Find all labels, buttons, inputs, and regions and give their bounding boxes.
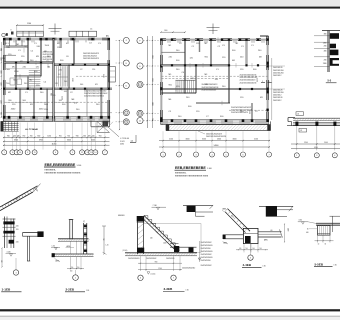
svg-text:20423412602: 20423412602 [146, 258, 156, 260]
plan A window frame ticks top wall [13, 40, 15, 42]
detail 3-3 stair slab [144, 216, 180, 251]
beam elevation left bracket [288, 117, 295, 119]
svg-text:1.40: 1.40 [52, 245, 55, 247]
svg-text:3200: 3200 [202, 139, 206, 141]
detail 2-2 parapet post [70, 220, 73, 239]
svg-text:MC: MC [14, 80, 18, 82]
svg-text:5: 5 [225, 154, 226, 156]
svg-text:1:30: 1:30 [186, 289, 189, 291]
svg-text:3000: 3000 [151, 102, 153, 106]
svg-text:750: 750 [102, 238, 104, 241]
plan A grid bubbles [2, 150, 7, 155]
svg-text:L10: L10 [270, 230, 273, 232]
svg-text:EBEBEBEBE EBEBEBEBEBE EBEBEB: EBEBEBEBE EBEBEBEBEBE EBEBEB [45, 173, 81, 175]
svg-text:460: 460 [13, 135, 16, 137]
svg-text:7.160: 7.160 [153, 205, 157, 207]
svg-text:EBE,EBEBEBEBE: EBE,EBEBEBEBE [45, 163, 76, 167]
plan A stair treads flight 1 [29, 70, 41, 72]
plan A right wall windows [108, 50, 111, 60]
svg-text:3900: 3900 [39, 140, 43, 142]
section 5-5 beam block 1 [330, 33, 339, 39]
plan A interior wall y46.5 [4, 45, 28, 47]
bottom gray margin band [0, 317, 340, 320]
plan B bottom wall column blocks [160, 119, 163, 122]
beam elevation dim row [291, 143, 340, 145]
svg-text:3: 3 [316, 155, 317, 157]
plan A outer wall top [4, 38, 110, 40]
svg-text:204234126020423: 204234126020423 [83, 58, 99, 60]
plan A bottom wall window gaps [11, 117, 17, 120]
svg-text:240: 240 [16, 242, 19, 244]
svg-text:EBEBEBEBE EBEBEBEBEBE EBEB: EBEBEBEBE EBEBEBEBEBE EBEB [175, 176, 209, 178]
plan A closet partitions top-left [9, 40, 11, 46]
plan A left edge dims [0, 42, 2, 118]
plan A outer wall left [3, 38, 5, 121]
svg-text:380: 380 [324, 34, 327, 36]
plan B stair treads [175, 81, 177, 93]
plan B bottom porch band [166, 124, 271, 126]
plan B left wall column blocks [160, 65, 162, 68]
detail 4-4 diagonal member [228, 209, 251, 232]
detail 3-3 left wall [137, 216, 139, 254]
plan A interior wall y62.5 [4, 62, 53, 63]
plan B door marks [189, 63, 191, 67]
svg-text:2650: 2650 [151, 55, 153, 59]
svg-text:1500: 1500 [0, 82, 1, 86]
plan B top small dim [161, 31, 185, 33]
plan B partition wall y52 [161, 51, 185, 53]
plan A shelf line y55 [4, 54, 16, 56]
svg-text:1:30: 1:30 [263, 265, 266, 267]
detail 2-2 bubble [73, 275, 79, 281]
svg-text:360: 360 [17, 135, 20, 137]
svg-text:950: 950 [59, 135, 62, 137]
svg-text:1240: 1240 [158, 268, 162, 270]
svg-text:900: 900 [0, 112, 1, 115]
plan B outer wall right [267, 36, 269, 124]
plan B wall y103 [196, 102, 230, 104]
svg-text:1160: 1160 [164, 30, 168, 32]
svg-text:3000: 3000 [233, 139, 237, 141]
svg-text:240: 240 [16, 225, 19, 227]
plan A terrace X brace [97, 121, 110, 132]
svg-text:280: 280 [324, 46, 327, 48]
plan A top dimension line [17, 24, 44, 26]
detail 1-1 column assembly [4, 217, 6, 249]
plan A dashed beam line y76 right [76, 75, 109, 77]
svg-text:1:100: 1:100 [207, 168, 212, 170]
svg-text:12: 12 [81, 152, 83, 154]
detail 2-2 right dim [103, 226, 105, 254]
svg-text:2042341260: 2042341260 [201, 260, 211, 262]
plan B top axis cross [212, 24, 214, 35]
svg-text:7: 7 [268, 154, 269, 156]
svg-text:6: 6 [140, 278, 141, 280]
plan A inner dim line upper-left [6, 45, 26, 47]
svg-text:10: 10 [19, 152, 21, 154]
plan A door swing marks [23, 48, 25, 52]
svg-text:20423412602042: 20423412602042 [182, 267, 195, 269]
detail 2-2 hanger lines between slabs [70, 241, 72, 254]
svg-text:20423412: 20423412 [273, 75, 281, 77]
svg-text:900: 900 [50, 93, 52, 96]
svg-text:1:100: 1:100 [77, 165, 82, 167]
svg-text:3#42#: 3#42# [120, 141, 125, 143]
plan B right wall column blocks [266, 62, 268, 65]
svg-text:9: 9 [12, 152, 13, 154]
svg-text:3: 3 [250, 257, 251, 259]
svg-text:1:30: 1:30 [86, 290, 89, 292]
plan A bottom-right terrace [91, 126, 110, 128]
detail 3-3 right annotations [199, 241, 201, 262]
svg-text:14: 14 [94, 152, 96, 154]
svg-text:6: 6 [242, 154, 243, 156]
detail 5-5 slab band [316, 223, 340, 225]
plan B outer wall left [161, 39, 163, 125]
svg-text:1260: 1260 [47, 135, 51, 137]
plan A grid bubble leaders [3, 123, 5, 150]
svg-text:3000: 3000 [186, 139, 190, 141]
plan A interior wall y88.5 [4, 88, 112, 89]
svg-text:20423412602: 20423412602 [201, 265, 212, 267]
plan A dashed beam line y102 [4, 101, 109, 103]
svg-text:20423412602042: 20423412602042 [202, 89, 217, 91]
svg-text:4: 4 [334, 155, 335, 157]
svg-text:3300: 3300 [71, 78, 73, 82]
svg-text:1160: 1160 [27, 23, 31, 25]
svg-text:4480: 4480 [287, 228, 289, 232]
plan A bottom wall column blocks [3, 116, 6, 119]
section 5-5 beam block 4 [330, 58, 339, 66]
svg-text:1: 1 [296, 155, 297, 157]
svg-text:700: 700 [245, 248, 247, 250]
detail 1-1 hanging post [27, 236, 29, 261]
detail 4-4 bottom dims [243, 244, 245, 253]
beam elevation column blocks [295, 122, 298, 126]
plan B left axis bubbles [137, 37, 143, 43]
svg-text:13: 13 [90, 152, 92, 154]
svg-text:EBEBEBEB-: EBEBEBEB- [45, 169, 57, 171]
svg-text:3000: 3000 [324, 142, 328, 144]
detail 4-4 central block [243, 228, 258, 243]
svg-text:204234126020: 204234126020 [128, 258, 139, 260]
plan B dimension row 1 [159, 140, 270, 142]
svg-text:30: 30 [325, 243, 327, 245]
svg-text:C2: C2 [80, 69, 82, 71]
svg-text:150: 150 [71, 267, 74, 269]
plan A toilet fixtures [10, 78, 15, 85]
plan B bubble leaders [162, 131, 164, 152]
detail 2-2 lower slab [52, 253, 94, 255]
svg-text:3-3EB: 3-3EB [164, 287, 174, 291]
svg-text:280: 280 [324, 59, 327, 61]
svg-text:L3: L3 [297, 114, 299, 116]
svg-text:EBEBEB: EBEBEB [118, 215, 124, 217]
svg-text:2400: 2400 [102, 74, 104, 78]
svg-text:1600: 1600 [0, 70, 1, 74]
svg-text:204234126: 204234126 [166, 258, 175, 260]
plan A interior wall y76 [14, 75, 41, 77]
plan A overall dim [3, 144, 110, 146]
plan A thin line above bottom wall [4, 112, 112, 114]
plan B right side dim line [271, 58, 273, 120]
svg-text:10: 10 [318, 243, 320, 245]
svg-text:120: 120 [46, 61, 49, 63]
svg-text:2250: 2250 [151, 78, 153, 82]
svg-text:20423412602: 20423412602 [201, 254, 212, 256]
plan B outer wall top [161, 39, 269, 41]
svg-text:1240: 1240 [163, 243, 167, 245]
svg-text:3: 3 [27, 152, 28, 154]
svg-text:1: 1 [4, 152, 5, 154]
detail 3-3 level symbol [147, 272, 150, 274]
plan A left wall windows [3, 45, 6, 55]
svg-text:EEB,EBEBEBEBE: EEB,EBEBEBEBE [175, 166, 206, 170]
svg-text:11: 11 [34, 152, 36, 154]
beam elevation leaders [296, 126, 298, 150]
svg-text:7: 7 [173, 278, 174, 280]
svg-text:1380: 1380 [323, 63, 327, 65]
detail 4-4 bubble [248, 255, 253, 260]
plan A top axis cross marker [54, 24, 56, 35]
detail 1-1 roof slope [0, 186, 38, 207]
svg-text:(1.240): (1.240) [151, 273, 156, 275]
detail 4-4 left slab [223, 234, 243, 236]
plan A shaft dark wall [53, 40, 55, 63]
plan B dashed beam lines y76-78 [161, 75, 267, 77]
beam elevation L3 label above [296, 112, 304, 116]
svg-text:6300: 6300 [314, 147, 318, 149]
svg-text:900: 900 [7, 135, 10, 137]
svg-text:5: 5 [72, 152, 73, 154]
svg-text:3.60: 3.60 [299, 220, 302, 222]
svg-text:390: 390 [88, 135, 91, 137]
svg-text:2100: 2100 [169, 139, 173, 141]
svg-text:240: 240 [64, 81, 67, 83]
svg-text:30: 30 [307, 229, 309, 231]
detail 5-5 beam section [318, 226, 331, 236]
svg-text:C4: C4 [58, 74, 60, 76]
plan B top wall windows [166, 38, 171, 41]
svg-text:3300: 3300 [14, 140, 18, 142]
svg-text:5-5: 5-5 [328, 80, 332, 83]
beam elevation L3 label below [299, 128, 307, 132]
plan B bottom wall window gaps [168, 121, 174, 124]
detail 1-1 vertical dim [1, 248, 3, 267]
svg-text:3200: 3200 [91, 140, 95, 142]
svg-text:3300: 3300 [304, 142, 308, 144]
section 5-5 wall line [327, 31, 329, 73]
svg-text:240: 240 [252, 248, 254, 250]
plan B window frame ticks top wall [167, 41, 169, 43]
svg-text:530: 530 [83, 135, 86, 137]
svg-text:2042341260: 2042341260 [201, 248, 211, 250]
svg-text:2300: 2300 [217, 139, 221, 141]
svg-text:4.240: 4.240 [7, 252, 11, 254]
svg-text:3300: 3300 [0, 100, 1, 104]
plan B grid bubbles [161, 152, 166, 157]
bottom shadow line [0, 316, 340, 317]
plan A right vertical dim line [119, 40, 121, 130]
detail 2-2 ladder column [83, 223, 85, 254]
plan A leader note bottom right [108, 127, 119, 137]
plan A stair side wall [67, 65, 69, 89]
svg-text:1500: 1500 [0, 57, 1, 61]
svg-text:204234126020: 204234126020 [201, 257, 213, 259]
svg-text:(3.160): (3.160) [123, 250, 128, 252]
detail 1-1 roof hatch [2, 206, 4, 209]
plan A outer wall right [108, 38, 110, 121]
svg-text:4-4EB: 4-4EB [243, 263, 252, 267]
beam elevation bubbles [294, 153, 299, 158]
svg-text:1:30: 1:30 [334, 265, 337, 267]
svg-text:1-1EB: 1-1EB [2, 288, 12, 292]
svg-text:980: 980 [155, 261, 158, 263]
plan A top-right porch [69, 31, 97, 36]
plan A dimension row 2 [3, 140, 110, 142]
detail 4-4 right slab [258, 231, 282, 233]
plan B wall y93 [161, 92, 196, 94]
detail 3-3 ground slab [125, 252, 197, 254]
svg-text:840: 840 [37, 135, 40, 137]
svg-text:700: 700 [30, 135, 33, 137]
beam elevation overall dim [291, 148, 340, 150]
svg-text:4080: 4080 [120, 144, 124, 146]
svg-text:740: 740 [67, 135, 70, 137]
plan A top wall column blocks [3, 38, 5, 40]
detail 3-3 room outline [143, 224, 201, 253]
svg-text:2100: 2100 [254, 139, 258, 141]
detail 3-3 stair steps [144, 216, 179, 251]
svg-text:4: 4 [55, 152, 56, 154]
svg-text:120: 120 [92, 69, 95, 71]
svg-text:4: 4 [211, 154, 212, 156]
detail 5-5 bottom dims [317, 235, 319, 243]
svg-text:2-2EB: 2-2EB [66, 288, 75, 292]
plan A dimension row 1 [3, 136, 110, 138]
svg-text:3: 3 [15, 272, 16, 274]
svg-text:120: 120 [16, 229, 19, 231]
plan A entrance steps [1, 121, 19, 123]
plan B wall y89 [161, 87, 267, 89]
svg-text:700: 700 [259, 248, 261, 250]
svg-text:204234126020: 204234126020 [201, 251, 213, 253]
svg-text:2C: 2C [106, 36, 109, 38]
section 5-5 top line [322, 30, 340, 32]
detail 3-3 eave mini detail [183, 205, 213, 207]
svg-text:150: 150 [77, 267, 80, 269]
svg-text:2042341260204234: 2042341260204234 [240, 82, 257, 84]
svg-text:1: 1 [162, 154, 163, 156]
svg-text:M1: M1 [95, 84, 98, 86]
svg-text:900: 900 [80, 84, 83, 86]
plan B dashed beam line y110 [229, 109, 268, 111]
plan B axis E wall [161, 65, 229, 66]
svg-text:960: 960 [76, 135, 79, 137]
svg-text:204234126020423: 204234126020423 [231, 112, 249, 114]
plan A corner axis mark left [2, 33, 6, 37]
detail 1-1 right beam [23, 232, 44, 234]
section 5-5 tick lines [314, 35, 329, 37]
svg-text:750: 750 [151, 118, 153, 121]
svg-text:2: 2 [16, 152, 17, 154]
plan B top-right corner step [260, 35, 268, 37]
plan A top-left porch [17, 31, 44, 36]
svg-text:1.40: 1.40 [106, 244, 109, 246]
plan B interior verticals [183, 40, 185, 94]
svg-text:400: 400 [306, 232, 309, 234]
detail 3-3 under-stair dims [140, 256, 142, 271]
top gray margin band [0, 0, 340, 7]
detail 2-2 upper slab [58, 238, 89, 240]
svg-text:AL.TC34040: AL.TC34040 [25, 128, 38, 131]
plan A outer wall bottom [4, 116, 110, 118]
detail 3-3 wall base block [137, 248, 144, 253]
plan B left wall windows [160, 45, 163, 55]
plan A bay window [109, 67, 116, 83]
bottom border line [0, 309, 340, 311]
svg-text:480: 480 [324, 50, 327, 52]
svg-text:14800: 14800 [214, 145, 219, 147]
plan B outer wall bottom [161, 119, 269, 121]
detail 3-3 bubbles [138, 275, 143, 280]
plan A right axis bubbles [116, 39, 124, 41]
svg-text:20423412602: 20423412602 [201, 242, 212, 244]
svg-text:204234126020423412: 204234126020423412 [84, 96, 105, 98]
plan A corner mark 2 [11, 32, 14, 35]
svg-text:1380: 1380 [323, 42, 327, 44]
section 5-5 beam block 2 [330, 44, 336, 49]
svg-text:300: 300 [70, 271, 73, 273]
detail 2-2 bottom dims [70, 257, 72, 270]
plan B overall dim [159, 146, 270, 148]
svg-text:2042341260204234126: 2042341260204234126 [206, 136, 226, 138]
svg-text:5-5EB: 5-5EB [315, 262, 324, 266]
svg-text:8: 8 [11, 30, 12, 32]
svg-text:900: 900 [0, 48, 1, 51]
plan B right wall windows [266, 45, 269, 55]
detail 1-1 bubble [15, 258, 17, 270]
svg-text:420: 420 [92, 135, 95, 137]
svg-text:11060: 11060 [52, 143, 57, 145]
detail 4-4 right dim [284, 224, 286, 242]
svg-text:2400: 2400 [61, 96, 63, 100]
svg-text:3: 3 [195, 154, 196, 156]
detail 3-3 landing [170, 246, 197, 248]
plan B top wall column blocks [160, 38, 162, 40]
svg-text:950: 950 [99, 135, 102, 137]
svg-text:C5: C5 [90, 28, 92, 30]
plan A interior vertical walls [26, 39, 28, 63]
svg-text:EBEBEBEB-: EBEBEBEB- [175, 172, 187, 174]
plan A top wall windows [12, 38, 18, 41]
plan B left vertical dim [146, 36, 148, 128]
svg-text:7: 7 [104, 152, 105, 154]
plan A stair treads flight 2 [56, 66, 58, 86]
svg-text:L-TC34.00: L-TC34.00 [120, 138, 129, 140]
plan A interior wall y64.6 right [54, 64, 109, 65]
beam elevation slab [293, 117, 340, 119]
svg-text:760: 760 [22, 135, 25, 137]
svg-text:2: 2 [178, 154, 179, 156]
svg-text:M2: M2 [20, 61, 23, 63]
svg-text:3600: 3600 [67, 140, 71, 142]
detail 5-5 right line [332, 216, 334, 232]
detail 4-4 top element [259, 205, 293, 207]
detail 1-1 slope arrow [34, 188, 38, 191]
svg-text:20423412: 20423412 [273, 100, 281, 102]
svg-text:240: 240 [239, 248, 241, 250]
